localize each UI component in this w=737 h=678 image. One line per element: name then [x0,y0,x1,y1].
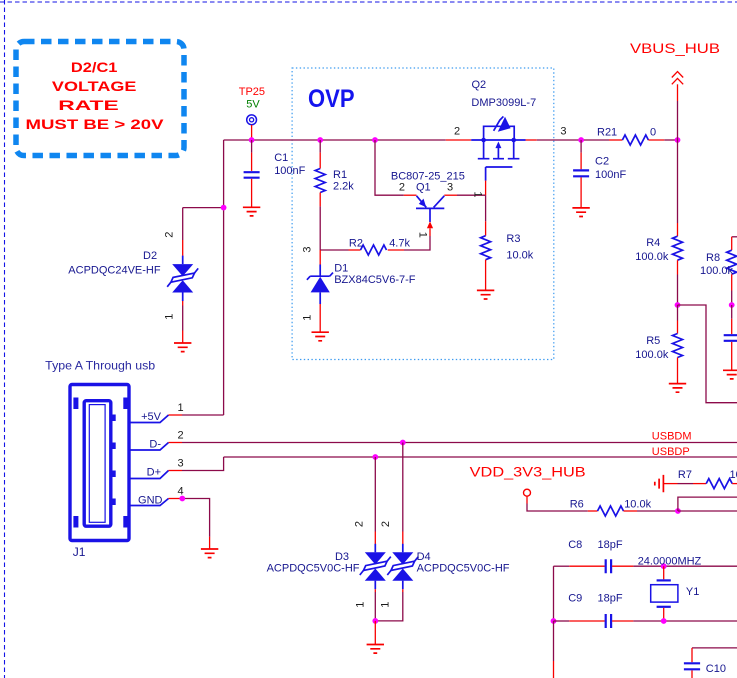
ground below pin 4 [201,549,218,558]
note box D2/C1 voltage rate [16,42,184,156]
wire C8 to C9 left leg [553,566,555,621]
node crystal top junction [661,563,667,569]
svg-text:18pF: 18pF [598,539,623,551]
svg-text:J1: J1 [73,545,86,559]
capacitor C10 [684,648,737,678]
svg-text:3: 3 [447,181,453,193]
node pin4 junction [179,496,185,502]
diode D4 ACPDQC5V0C-HF [375,443,418,621]
resistor R2 [349,245,405,255]
svg-text:1: 1 [164,314,176,320]
svg-text:R8: R8 [706,252,720,264]
connector J1 inner slot [89,405,105,523]
node R1 junction [317,137,323,143]
svg-text:24.0000MHZ: 24.0000MHZ [638,556,702,568]
resistor R1 [315,140,325,250]
svg-text:C9: C9 [568,592,582,604]
svg-text:2: 2 [454,125,460,137]
svg-text:100.0k: 100.0k [635,251,669,263]
mosfet Q2 DMP3099L-7 [471,116,537,195]
svg-text:R1: R1 [333,169,347,181]
wire USBDP [224,456,737,458]
wire USBDP riser [182,457,224,471]
svg-text:2.2k: 2.2k [333,181,354,193]
svg-text:D4: D4 [417,551,431,563]
ground rotated at R7 [655,475,664,492]
node Q1 branch junction [372,137,378,143]
power symbol VBUS_HUB [672,72,683,140]
wire R6 output lower [678,510,737,512]
crystal Y1 24.0000MHZ [651,566,678,621]
svg-text:1: 1 [301,315,313,321]
svg-text:OVP: OVP [308,85,355,113]
ground below D1 [312,332,329,341]
svg-text:VOLTAGE: VOLTAGE [52,78,137,94]
wire R6 output upper [678,497,737,511]
svg-text:D+: D+ [147,466,161,478]
svg-text:DMP3099L-7: DMP3099L-7 [471,97,536,109]
node crystal bottom junction [661,618,667,624]
svg-text:18pF: 18pF [598,592,623,604]
connector J1 inner shell [84,401,111,527]
svg-text:USBDP: USBDP [652,446,690,458]
svg-text:10.0k: 10.0k [730,469,737,481]
ground below C1 [243,207,260,216]
svg-text:ACPDQC5V0C-HF: ACPDQC5V0C-HF [417,563,510,575]
svg-text:+5V: +5V [141,411,162,423]
capacitor below R8 [724,305,737,370]
resistor R6 [588,506,678,516]
wire below C9 junction [553,621,555,678]
svg-text:ACPDQC24VE-HF: ACPDQC24VE-HF [68,265,161,277]
svg-text:3: 3 [301,246,313,252]
svg-text:Y1: Y1 [686,586,699,598]
svg-text:Q1: Q1 [416,181,431,193]
node C9 corner junction [551,618,557,624]
svg-text:10.0k: 10.0k [624,499,651,511]
connector contact bump 4 [110,499,116,506]
svg-text:2: 2 [164,232,176,238]
svg-text:4.7k: 4.7k [389,238,410,250]
svg-text:Q2: Q2 [472,79,487,91]
connector J1 outer body [70,385,129,541]
svg-text:D3: D3 [335,551,349,563]
svg-text:4: 4 [177,486,183,498]
sheet border top [0,1,737,3]
wire R8 top [732,236,737,238]
pin 2 D- of J1 [129,443,182,451]
capacitor C2 [573,140,589,208]
capacitor C8 [554,559,737,573]
svg-text:2: 2 [177,430,183,442]
node R8 junction [729,302,735,308]
connector contact bump 1 [110,415,116,422]
svg-text:100.0k: 100.0k [700,265,734,277]
resistor R7 [663,479,737,489]
svg-text:Type A Through usb: Type A Through usb [45,359,155,373]
svg-text:C2: C2 [595,156,609,168]
zener diode D1 [307,250,333,332]
diode D2 ACPDQC24VE-HF [167,208,198,343]
svg-text:3: 3 [560,125,566,137]
node VBUS junction [675,137,681,143]
diode D3 ACPDQC5V0C-HF [360,457,391,621]
note text [26,59,165,132]
connector contact bump 3 [110,471,116,478]
svg-text:R6: R6 [570,499,584,511]
wire bus R21 to VBUS node [664,139,677,141]
pin 4 GND of J1 [129,499,209,550]
wire D2 branch [183,207,224,209]
svg-text:1: 1 [355,602,367,608]
svg-text:3: 3 [177,458,183,470]
svg-text:VBUS_HUB: VBUS_HUB [630,41,720,56]
transistor Q1 BC807 [404,195,457,236]
svg-text:R4: R4 [646,237,660,249]
wire +5V riser [223,140,225,415]
wire R2 to Q1 base [404,236,430,250]
svg-text:100.0k: 100.0k [635,349,669,361]
node TP25/C1 junction [249,137,255,143]
svg-text:C8: C8 [568,539,582,551]
svg-text:TP25: TP25 [239,86,265,98]
wire divider tap [678,305,737,403]
svg-text:D-: D- [149,438,161,450]
connector contact bump 2 [110,443,116,450]
svg-text:MUST BE > 20V: MUST BE > 20V [26,116,165,132]
svg-text:2: 2 [354,521,366,527]
ground below D3/D4 [367,645,384,654]
resistor R3 [481,195,491,290]
svg-text:2: 2 [399,181,405,193]
node C2 junction [578,137,584,143]
node D4/USBDM junction [400,440,406,446]
main 5V bus wire [224,139,446,141]
resistor R8 [727,237,737,305]
svg-text:VDD_3V3_HUB: VDD_3V3_HUB [470,464,586,479]
node D3/USBDP junction [372,454,378,460]
capacitor C1 [244,140,260,207]
connector notch top-left [73,398,78,410]
resistor R4 [673,140,683,305]
svg-text:10.0k: 10.0k [506,249,533,261]
svg-text:1: 1 [177,402,183,414]
test point TP25 [247,115,257,140]
sheet border left [4,0,6,678]
svg-text:D2: D2 [143,250,157,262]
svg-text:1: 1 [380,602,392,608]
svg-text:R2: R2 [349,238,363,250]
wire USBDM [182,442,737,444]
ground below R3 [477,290,494,299]
svg-text:R5: R5 [646,335,660,347]
svg-text:C10: C10 [706,663,726,675]
node R4/R5 junction [675,302,681,308]
ground below R8 capacitor [723,370,737,379]
wire Q1 emitter branch [375,140,404,195]
svg-text:R7: R7 [678,469,692,481]
resistor R21 [609,135,664,145]
resistor R5 [673,305,683,384]
lead to ground D3/D4 [374,621,376,645]
node R6 output junction [675,508,681,514]
node D3/D4 bottom junction [372,618,378,624]
OVP region box [292,68,554,360]
svg-text:ACPDQC5V0C-HF: ACPDQC5V0C-HF [267,563,360,575]
svg-text:1: 1 [416,232,428,238]
pin 1 +5V of J1 [129,415,223,423]
ground below D2 [174,343,191,352]
svg-text:GND: GND [138,494,163,506]
capacitor C9 [554,614,737,628]
svg-text:100nF: 100nF [274,165,305,177]
wire R2 line [320,249,348,251]
svg-text:1: 1 [471,191,483,197]
power port VDD_3V3_HUB [524,489,588,511]
ground below C2 [572,208,589,217]
node D2 branch junction [221,205,227,211]
ground below R5 [669,384,686,393]
svg-text:D2/C1: D2/C1 [71,59,118,75]
svg-text:5V: 5V [246,99,260,111]
svg-text:R21: R21 [597,127,617,139]
connector notch bottom-left [73,516,78,528]
pin 3 D+ of J1 [129,471,182,479]
svg-text:100nF: 100nF [595,169,626,181]
svg-text:BZX84C5V6-7-F: BZX84C5V6-7-F [334,274,416,286]
svg-text:C1: C1 [274,152,288,164]
svg-text:2: 2 [380,521,392,527]
connector notch bottom-right [123,516,128,528]
wire bus right of Q2 [537,139,609,141]
svg-text:D1: D1 [334,263,348,275]
lead into Q2 left [446,139,471,141]
connector notch top-right [123,398,128,410]
svg-text:0: 0 [650,127,656,139]
svg-text:RATE: RATE [58,97,119,113]
wire Q1 collector to gate [457,194,486,196]
svg-text:USBDM: USBDM [652,430,692,442]
svg-text:R3: R3 [506,233,520,245]
